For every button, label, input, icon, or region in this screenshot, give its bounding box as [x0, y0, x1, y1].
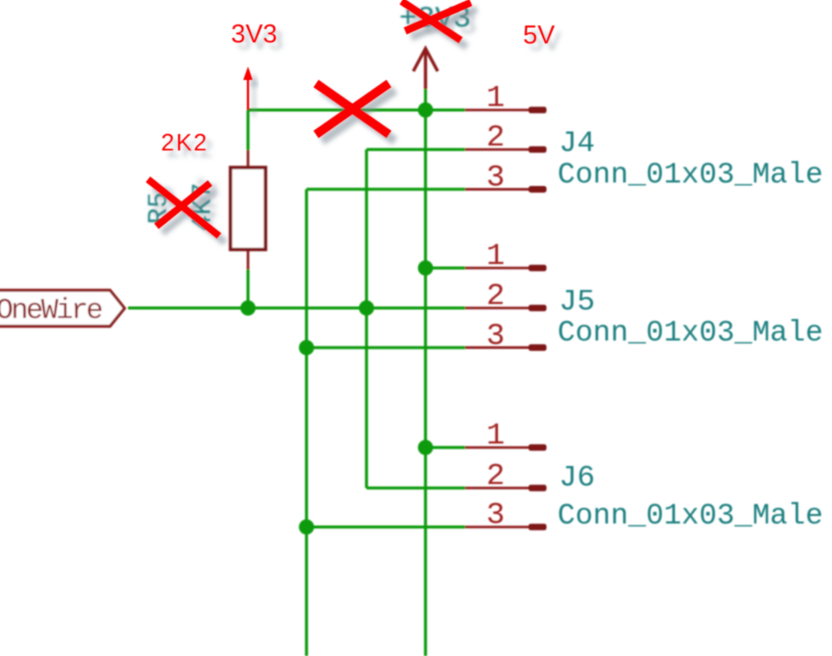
junction at 5V rail / J5 pin1: [418, 260, 433, 275]
wire vertical x=248 below resistor: [247, 270, 250, 309]
junction resistor bottom / OneWire: [240, 300, 255, 315]
annotation cross over R5 4K7: [148, 179, 219, 236]
wire bus verticals: [128, 89, 465, 656]
wire horizontal y=149.5 J4 pin2: [367, 148, 466, 151]
annotation cross over +3V3: [402, 1, 471, 40]
svg-text:1: 1: [486, 419, 505, 454]
svg-text:2: 2: [486, 279, 505, 314]
svg-text:J4: J4: [559, 127, 595, 161]
junction at 5V rail / J6 pin1: [418, 440, 433, 455]
resistor R5 top lead: [247, 150, 250, 168]
svg-text:J5: J5: [559, 286, 595, 320]
svg-text:Conn_01x03_Male: Conn_01x03_Male: [558, 316, 824, 350]
connector J4 pin 1: [465, 107, 547, 114]
annotation cross over wire: [316, 84, 389, 135]
resistor R5 body: [231, 168, 266, 250]
wire horizontal y=308 OneWire net: [128, 307, 465, 310]
svg-text:1: 1: [486, 239, 505, 274]
wire vertical x=306.5: [305, 189, 308, 656]
junction at 5V rail / J4 pin1: [418, 102, 433, 117]
svg-text:3: 3: [486, 161, 505, 196]
svg-text:Conn_01x03_Male: Conn_01x03_Male: [558, 499, 824, 533]
connector J6 pin 1: [465, 444, 547, 451]
svg-text:2: 2: [486, 121, 505, 156]
wire horizontal y=110 top rail: [248, 109, 465, 112]
wire horizontal y=487.5 J6 pin2: [367, 487, 466, 490]
svg-text:J6: J6: [559, 462, 595, 496]
annotation arrow 3V3: [243, 67, 253, 111]
junction x=306.5 / J6 pin3: [299, 519, 314, 534]
wire horizontal y=347.6 J5 pin3: [307, 346, 466, 349]
connector J5 pin 1: [465, 265, 547, 272]
wire horizontal y=189.3 J4 pin3: [307, 188, 466, 191]
svg-text:2: 2: [486, 459, 505, 494]
svg-text:3V3: 3V3: [231, 19, 277, 49]
connector J5 pin 2: [465, 305, 547, 312]
junction OneWire / x=366.5: [359, 300, 374, 315]
wire horizontal y=447.5 J6 pin1: [426, 446, 466, 449]
power symbol 5V arrow: [413, 49, 437, 90]
wire horizontal y=527 J6 pin3: [307, 526, 466, 529]
wire horizontal y=268 J5 pin1: [426, 267, 466, 270]
svg-text:1: 1: [486, 81, 505, 116]
svg-text:5V: 5V: [523, 20, 555, 50]
svg-text:2K2: 2K2: [161, 130, 209, 157]
connector J4 pin 2: [465, 146, 547, 153]
connector J5 pin 3: [465, 344, 547, 351]
svg-text:OneWire: OneWire: [0, 294, 102, 327]
connector J4 pin 3: [465, 186, 547, 193]
wire vertical x=248 above resistor: [247, 110, 250, 150]
svg-text:Conn_01x03_Male: Conn_01x03_Male: [558, 158, 824, 192]
svg-text:3: 3: [486, 498, 505, 533]
connector J6 pin 2: [465, 485, 547, 492]
wire vertical x=425.5: [424, 89, 427, 656]
resistor R5 bottom lead: [247, 250, 250, 270]
junction x=306.5 / J5 pin3: [299, 340, 314, 355]
svg-text:3: 3: [486, 319, 505, 354]
global label OneWire: [0, 290, 125, 326]
connector J6 pin 3: [465, 524, 547, 531]
wire vertical x=366.5: [365, 150, 368, 489]
